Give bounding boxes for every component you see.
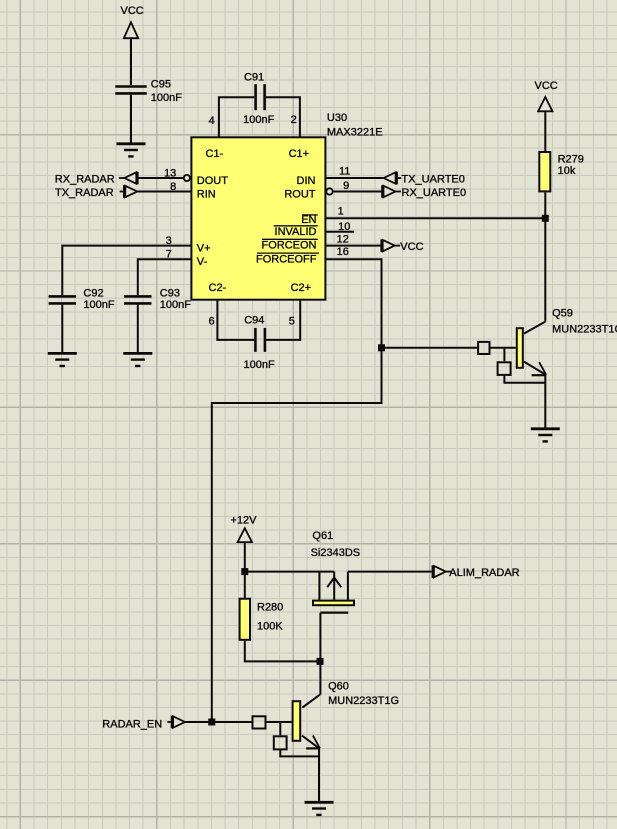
svg-text:C2+: C2+ [291,282,312,294]
svg-text:RIN: RIN [197,188,216,200]
svg-text:10: 10 [338,221,350,233]
svg-text:3: 3 [166,235,172,247]
svg-text:MUN2233T1G: MUN2233T1G [328,695,399,707]
svg-text:DIN: DIN [297,175,316,187]
svg-text:C95: C95 [151,79,171,91]
svg-text:100nF: 100nF [244,359,275,371]
svg-text:100nF: 100nF [151,92,182,104]
svg-text:4: 4 [209,115,215,127]
svg-text:V+: V+ [197,243,211,255]
svg-text:6: 6 [208,315,214,327]
svg-text:13: 13 [164,167,176,179]
svg-text:TX_RADAR: TX_RADAR [55,187,114,199]
svg-text:VCC: VCC [535,80,558,92]
svg-text:VCC: VCC [121,5,144,17]
svg-text:INVALID: INVALID [275,226,317,238]
svg-text:1: 1 [338,205,344,217]
svg-text:RX_UARTE0: RX_UARTE0 [402,187,467,199]
svg-text:RX_RADAR: RX_RADAR [55,174,115,186]
svg-text:Si2343DS: Si2343DS [311,547,361,559]
svg-text:VCC: VCC [400,241,423,253]
svg-text:Q59: Q59 [552,308,573,320]
svg-text:11: 11 [339,165,350,177]
svg-text:100nF: 100nF [83,299,114,311]
svg-text:FORCEOFF: FORCEOFF [256,253,317,265]
svg-text:ROUT: ROUT [284,188,315,200]
svg-text:C1+: C1+ [289,148,310,160]
svg-text:Q60: Q60 [328,680,349,692]
svg-text:C1-: C1- [206,148,224,160]
svg-text:C92: C92 [83,287,103,299]
svg-text:100nF: 100nF [160,299,191,311]
svg-text:R279: R279 [558,153,584,165]
svg-text:100nF: 100nF [243,114,274,126]
svg-text:2: 2 [291,114,297,126]
svg-text:+12V: +12V [231,515,258,527]
svg-text:EN: EN [301,214,316,226]
svg-text:C94: C94 [244,314,264,326]
svg-text:C2-: C2- [209,282,227,294]
svg-text:MUN2233T1G: MUN2233T1G [552,324,617,336]
svg-text:100K: 100K [257,621,283,633]
svg-text:ALIM_RADAR: ALIM_RADAR [449,567,519,579]
svg-text:TX_UARTE0: TX_UARTE0 [402,174,465,186]
svg-text:12: 12 [337,234,349,246]
svg-text:8: 8 [170,181,176,193]
svg-text:7: 7 [166,249,172,261]
svg-text:C93: C93 [160,287,180,299]
svg-text:MAX3221E: MAX3221E [327,127,383,139]
svg-text:9: 9 [343,180,349,192]
svg-text:16: 16 [337,246,349,258]
svg-text:10k: 10k [558,165,576,177]
svg-text:RADAR_EN: RADAR_EN [102,718,162,730]
svg-text:Q61: Q61 [312,530,333,542]
svg-text:U30: U30 [327,112,347,124]
svg-text:DOUT: DOUT [197,175,228,187]
svg-text:5: 5 [289,315,295,327]
svg-text:V-: V- [197,256,208,268]
svg-text:FORCEON: FORCEON [262,240,317,252]
svg-text:R280: R280 [257,602,283,614]
svg-text:C91: C91 [244,72,264,84]
